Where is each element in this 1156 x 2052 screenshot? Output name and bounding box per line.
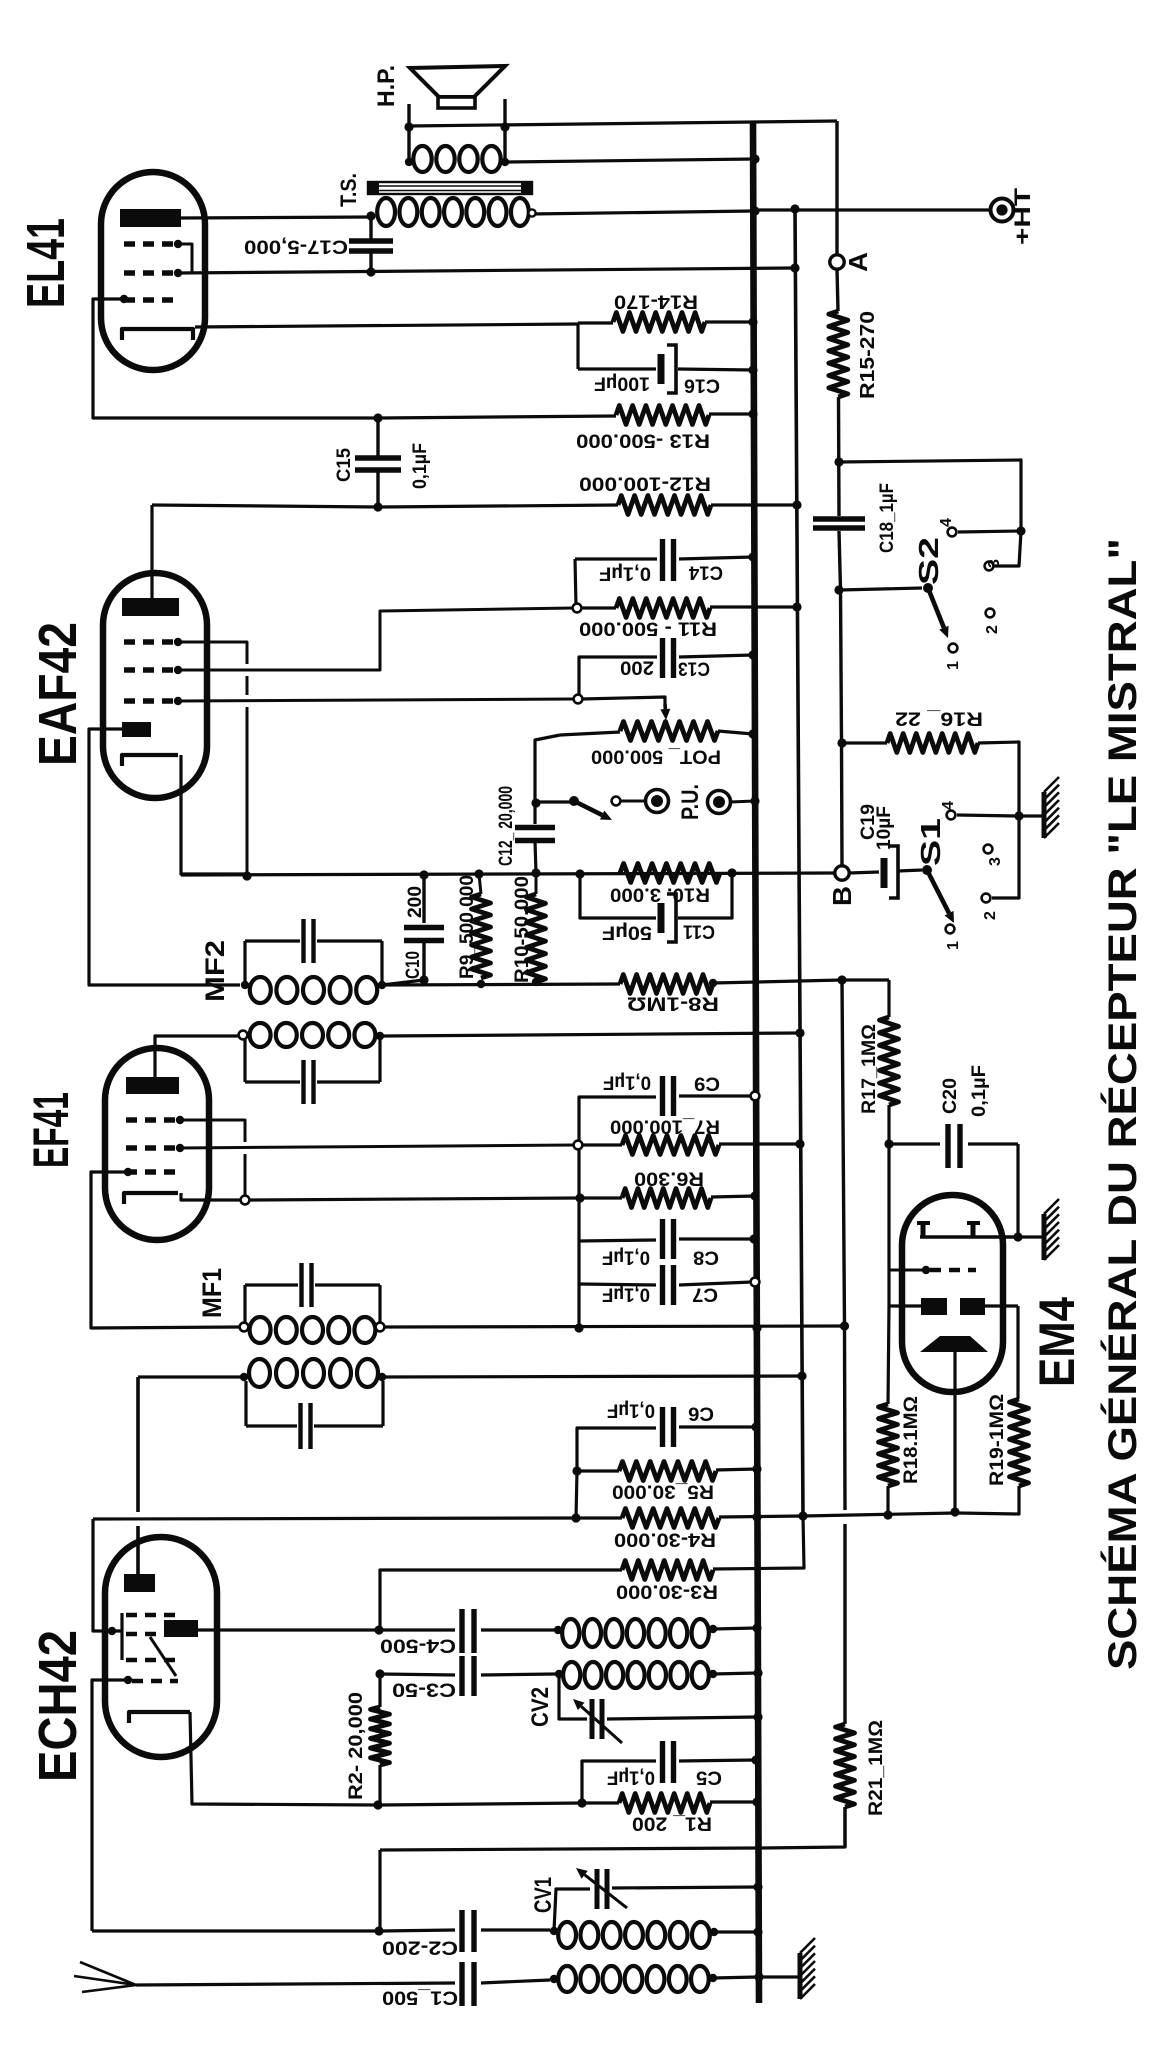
junction C15 bottom (373, 502, 382, 511)
svg-text:0,1µF: 0,1µF (607, 1767, 655, 1788)
svg-text:R6.300: R6.300 (634, 1168, 704, 1189)
potentiometer POT 500.000 (620, 722, 718, 741)
EAF42 grid3 dashes (124, 698, 180, 703)
ECH42 triode anode (164, 1620, 198, 1637)
junction C15 top (373, 413, 382, 422)
EM4 grid dashes (930, 1268, 976, 1273)
ground main (798, 1953, 803, 1999)
contact S2-3 (985, 562, 994, 571)
capacitor C15 (376, 418, 379, 456)
variable capacitor CV1 (554, 1889, 590, 1931)
junction R14 bus (748, 317, 757, 326)
resistor R2 20000 (371, 1707, 390, 1765)
wire EAF42 anode lead up (150, 505, 153, 604)
capacitor C12 (535, 735, 560, 824)
capacitor C8 (579, 1240, 656, 1241)
inductor input coil1 (558, 1922, 576, 1948)
junction MF2 coil right (378, 981, 386, 989)
capacitor C16 electrolytic (578, 367, 656, 370)
ECH42 heptode anode (124, 1574, 155, 1592)
wire ring to pot wiper (582, 697, 665, 704)
junction C12 switch tap (531, 798, 540, 807)
svg-text:+HT: +HT (1010, 187, 1035, 245)
EF41 grid3 dashes (126, 1169, 182, 1174)
junction C7 bus ring (751, 1278, 760, 1287)
wire ECH42 anode lead up (136, 1377, 140, 1512)
wire EL41 g2 to secondary bus (178, 268, 795, 273)
svg-text:4: 4 (940, 801, 957, 810)
wire ECH42 screen tap (93, 1519, 122, 1631)
wire EAF42 cathode down (181, 755, 247, 874)
junction C16 bus (748, 365, 757, 374)
junction coil2 bus (753, 1668, 762, 1677)
svg-text:R14-170: R14-170 (614, 291, 698, 312)
ECH42 grid4 dashes (132, 1679, 178, 1684)
wire EL41 g3 down-right (93, 299, 378, 418)
svg-text:EAF42: EAF42 (28, 622, 88, 766)
svg-text:2: 2 (982, 911, 999, 920)
wire C7 column to MF1 line (577, 1284, 580, 1328)
wire EAF42 g1 down (178, 642, 247, 664)
svg-text:0,1µF: 0,1µF (599, 563, 651, 584)
resistor R17 1M (880, 1017, 899, 1105)
junction R16 left (837, 738, 846, 747)
resistor R12 (618, 496, 711, 515)
capacitor C5 (582, 1761, 656, 1803)
svg-text:4: 4 (938, 518, 955, 527)
svg-text:200: 200 (620, 657, 654, 678)
junction POT bus (748, 729, 757, 738)
wire S2 contacts loop (839, 460, 1021, 531)
resistor R19 1M (1010, 1399, 1029, 1486)
junction C17 bottom (366, 267, 375, 276)
capacitor C13 (583, 655, 657, 658)
capacitor C3 (380, 1674, 455, 1675)
wire T.S. right to +HT (530, 211, 753, 214)
contact S1-2 (982, 894, 991, 903)
svg-text:R4-30.000: R4-30.000 (614, 1529, 716, 1550)
MF2 secondary box (243, 1039, 246, 1082)
switch S1 lever (922, 865, 932, 875)
variable capacitor CV2 (559, 1674, 587, 1719)
wire ground stub S1 (1019, 814, 1042, 817)
svg-text:C8: C8 (693, 1247, 719, 1268)
junction R6 bus (750, 1191, 759, 1200)
svg-text:R2- 20,000: R2- 20,000 (346, 1692, 367, 1800)
junction R7 secondary bus (795, 1139, 804, 1148)
svg-text:C11: C11 (683, 921, 715, 942)
wire ECH42 cathode down (190, 1712, 378, 1805)
contact S2-2 (986, 609, 995, 618)
junction HT bus tap (750, 206, 759, 215)
junction osc coil1 left (554, 1626, 562, 1634)
svg-text:R13 -500.000: R13 -500.000 (576, 430, 710, 451)
resistor R3 (622, 1561, 713, 1580)
wire C17 to line (369, 251, 372, 272)
svg-text:0,1µF: 0,1µF (410, 443, 431, 489)
wire C13 bracket to wiper (579, 657, 583, 695)
wire grid line column (378, 1850, 381, 1931)
junction C8 bus (749, 1234, 758, 1243)
junction R11 left (573, 604, 582, 613)
svg-text:R18.1MΩ: R18.1MΩ (901, 1396, 922, 1484)
wire R3 right corner (713, 1516, 804, 1569)
wire C6 column (576, 1471, 577, 1518)
wire EF41 g1 down (180, 1120, 245, 1142)
junction C4 line (374, 1625, 383, 1634)
svg-text:0,1µF: 0,1µF (603, 1072, 651, 1093)
svg-text:0,1µF: 0,1µF (602, 1284, 650, 1305)
wire EM4 left plate (887, 1270, 890, 1306)
MF1 primary box (245, 1283, 298, 1286)
junction MF1 coil left (240, 1323, 249, 1332)
junction speaker right (500, 122, 509, 131)
capacitor C14 (575, 557, 657, 560)
svg-text:R19-1MΩ: R19-1MΩ (987, 1394, 1008, 1486)
contact S1-1 (946, 925, 955, 934)
svg-text:EF41: EF41 (23, 1092, 79, 1168)
terminal P.U. left jack (646, 790, 669, 813)
junction R5 left (572, 1466, 581, 1475)
junction g1/AVC (242, 871, 251, 880)
tube EL41 envelope (101, 172, 205, 370)
junction MF2 secondary bus (795, 1028, 804, 1037)
capacitor C4 (379, 1628, 455, 1631)
svg-text:SCHÉMA GÉNÉRAL DU RÉCEPTEUR: SCHÉMA GÉNÉRAL DU RÉCEPTEUR "LE MISTRAL" (1100, 538, 1145, 1670)
wire C14 left bracket (575, 559, 576, 606)
junction C10 top (419, 870, 428, 879)
resistor R9 500.000 (472, 894, 491, 978)
junction grid3 ring (574, 695, 583, 704)
wire coil1 to bus (713, 1628, 756, 1629)
wire R21 bottom corner (759, 1807, 845, 1848)
junction C14 bus (748, 552, 757, 561)
wire screen rail (93, 1518, 622, 1519)
svg-text:C2-200: C2-200 (382, 1937, 458, 1958)
capacitor C6 (577, 1428, 656, 1471)
tube ECH42 envelope (105, 1537, 217, 1757)
wire EF41 anode lead (155, 1036, 240, 1079)
svg-text:CV2: CV2 (527, 1687, 554, 1727)
capacitor C17 (349, 238, 393, 243)
junction C9 bus ring (751, 1092, 760, 1101)
EF41 cathode (124, 1193, 178, 1204)
junction C13 bus (748, 650, 757, 659)
junction C2 line column (374, 1926, 383, 1935)
svg-text:C5: C5 (696, 1767, 722, 1788)
junction R9 bottom (477, 980, 485, 988)
EAF42 diode plate (122, 722, 151, 737)
capacitor C1 (459, 1962, 464, 2006)
resistor R1 200 (619, 1794, 710, 1813)
junction C5 bus (751, 1755, 760, 1764)
MF1 secondary box (244, 1381, 247, 1426)
EL41 grid 2 dashes (124, 270, 180, 275)
svg-text:0,1µF: 0,1µF (602, 1247, 650, 1268)
contact S1-3 (984, 845, 993, 854)
wire speaker coil to bus (505, 159, 755, 162)
svg-text:C13: C13 (678, 658, 710, 679)
wire cathode line (378, 1803, 582, 1805)
wire input coil1 to bus (714, 1930, 757, 1933)
wire ECH42 anode to MF1 sec (138, 1375, 244, 1378)
EL41 cathode (122, 329, 193, 340)
resistor R10. 3.000 (620, 864, 720, 883)
svg-text:EL41: EL41 (16, 218, 76, 308)
resistor R7 (622, 1136, 719, 1155)
ECH42 oscillator diagonal (150, 1637, 176, 1676)
svg-text:10µF: 10µF (874, 806, 895, 850)
junction C3 line (375, 1669, 384, 1678)
EL41 anode (120, 209, 181, 227)
node B (835, 866, 849, 880)
tube EF41 envelope (105, 1048, 209, 1240)
wire contact3 S2 (994, 531, 1021, 566)
capacitor MF2 secondary (301, 1060, 305, 1104)
inductor input coil2 (558, 1966, 576, 1992)
svg-text:C20: C20 (940, 1078, 961, 1114)
junction R11 secondary bus (792, 602, 801, 611)
junction R5 bus (752, 1464, 761, 1473)
junction rail secondary bus (798, 1511, 807, 1520)
junction MF1 sec left (240, 1373, 248, 1381)
junction PU bus (750, 796, 759, 805)
svg-text:POT_ 500.000: POT_ 500.000 (591, 746, 721, 767)
capacitor MF1 secondary (298, 1403, 302, 1449)
inductor MF2 primary coil (250, 977, 271, 1003)
svg-text:R15-270: R15-270 (857, 311, 879, 399)
ECH42 cathode (129, 1712, 190, 1723)
resistor R6 (622, 1189, 711, 1208)
wire EF41 cathode lead (181, 1193, 241, 1200)
junction bus top (750, 154, 759, 163)
EF41 anode (126, 1077, 179, 1094)
capacitor C10 (422, 875, 425, 923)
wire column down (577, 1149, 580, 1284)
junction input coil1 right (710, 1928, 718, 1936)
junction C12/R10 top (531, 868, 540, 877)
wire MF2 sec to secondary bus (384, 1033, 800, 1036)
junction R1 bus (752, 1797, 761, 1806)
ground S1 (1042, 792, 1047, 838)
resistor R10-50.000 (527, 894, 546, 982)
inductor speaker voice coil / T.S. secondary (413, 146, 431, 172)
wire EM4 right plate (985, 1304, 1018, 1307)
junction MF1 sec right (378, 1373, 386, 1381)
wire EL41 cathode to R14 (195, 324, 578, 327)
svg-text:1: 1 (945, 941, 962, 950)
svg-text:100µF: 100µF (594, 373, 650, 394)
ECH42 grid3 dashes (126, 1658, 178, 1663)
resistor R18 1M (879, 1404, 898, 1486)
wire contact4 S2 (958, 531, 1021, 532)
svg-text:C6: C6 (688, 1403, 714, 1424)
wire contact to jack (620, 800, 646, 803)
wire R8 to EM4 branch (713, 980, 842, 983)
EM4 target electrode (920, 1235, 1018, 1239)
svg-text:0,1µF: 0,1µF (969, 1065, 990, 1117)
junction rail C6 column (571, 1513, 580, 1522)
junction MF1 sec secondary bus (797, 1371, 806, 1380)
wire R14 left bracket (576, 324, 579, 369)
junction speaker left (404, 122, 413, 131)
junction coil2 bus bottom (754, 1972, 763, 1981)
wire EL41 g1 jumper (178, 244, 192, 273)
svg-text:0,1µF: 0,1µF (607, 1400, 655, 1421)
resistor R15 (829, 311, 848, 397)
junction T.S. primary right end (528, 209, 535, 216)
capacitor C19 electrolytic (849, 872, 879, 873)
junction coil left (405, 158, 413, 166)
resistor R8-1M (620, 975, 713, 994)
EL41 grid 1 dashes (124, 241, 180, 246)
svg-text:C18_1µF: C18_1µF (877, 483, 898, 553)
capacitor C11 electrolytic (580, 874, 656, 918)
svg-text:C1_500: C1_500 (382, 1987, 458, 2008)
EF41 grid1 dashes (126, 1117, 182, 1122)
wire EAF42 g3 to pot wiper (178, 699, 573, 701)
svg-text:R16_ 22: R16_ 22 (895, 708, 983, 729)
wire rail to EM4 resistors (803, 1513, 955, 1516)
junction MF1 line EM4 branch (840, 1321, 849, 1330)
svg-text:C10: C10 (403, 951, 424, 979)
capacitor C7 (579, 1284, 656, 1285)
resistor R5 (619, 1462, 716, 1481)
wire EM4 grid lead (887, 1144, 890, 1270)
svg-text:R1_ 200: R1_ 200 (632, 1813, 712, 1834)
node A (830, 255, 844, 269)
wire grid line to bus (380, 1848, 756, 1850)
junction S2 loop (1016, 526, 1025, 535)
resistor R14 (613, 313, 705, 332)
junction coil bus (753, 1927, 762, 1936)
wire R19 bottom corner (958, 1486, 1019, 1514)
junction input coil2 right (709, 1974, 717, 1982)
junction EM4 branch top (837, 975, 846, 984)
pot wiper arrow (663, 704, 667, 709)
resistor R21 1M (836, 1724, 855, 1807)
svg-text:C4-500: C4-500 (380, 1635, 456, 1656)
PU switch contact (612, 797, 621, 806)
junction input coil2 left (550, 1975, 558, 1983)
EM4 cathode screen (920, 1336, 988, 1352)
wire bus to +HT terminal (759, 208, 990, 211)
svg-text:R5_30.000: R5_30.000 (612, 1481, 714, 1502)
junction R10 left (575, 869, 584, 878)
svg-text:200: 200 (405, 886, 426, 918)
junction C9/R7 ring (574, 1141, 583, 1150)
junction osc coil2 left (555, 1670, 563, 1678)
switch S2 lever (923, 583, 933, 593)
junction R15 bottom (834, 457, 843, 466)
contact S2-4 (948, 528, 957, 537)
contact S1-4 (947, 811, 956, 820)
svg-text:C14: C14 (689, 562, 723, 583)
junction rail bus (752, 1512, 761, 1521)
MF2 primary box (245, 939, 300, 942)
resistor R16 (887, 734, 978, 753)
junction screen grid tap (108, 1627, 116, 1635)
tube EM4 envelope (902, 1195, 1003, 1392)
resistor R13 (616, 406, 709, 425)
ECH42 grid2 dashes (126, 1632, 160, 1637)
junction anode/T.S. (366, 211, 375, 220)
wire S2 pivot (840, 588, 922, 590)
wire ECH42 g4 to C2 line (92, 1680, 128, 1931)
svg-text:C12_ 20,000: C12_ 20,000 (496, 786, 517, 866)
svg-text:A: A (843, 252, 873, 272)
junction C10 bottom (419, 975, 428, 984)
EM4 deflection plates (921, 1298, 947, 1315)
wire MF1 to EM4 line (384, 1326, 845, 1327)
svg-text:S1: S1 (915, 818, 946, 866)
svg-text:C17-5,000: C17-5,000 (244, 236, 348, 257)
svg-text:R3-30.000: R3-30.000 (616, 1581, 718, 1602)
junction MF2 coil left (241, 981, 249, 989)
svg-text:B: B (827, 886, 857, 906)
svg-text:ECH42: ECH42 (28, 1630, 88, 1782)
junction C5 column (577, 1798, 586, 1807)
junction R8 right (709, 979, 717, 987)
wire R3 left corner (380, 1570, 622, 1630)
junction g2 secondary bus (790, 263, 799, 272)
resistor R4 (622, 1509, 719, 1528)
wire anode line EAF42 to R12 (152, 505, 618, 507)
wire contact4 S1 (957, 815, 1019, 816)
junction EM4 cathode rail (950, 1507, 959, 1516)
wire EL41 anode lead (181, 217, 371, 218)
svg-text:T.S.: T.S. (336, 173, 361, 207)
junction MF2 sec left (239, 1031, 248, 1040)
wire right vertical A-B branch (835, 121, 838, 255)
inductor osc coil1 (562, 1619, 579, 1647)
wire EF41 g3 to MF1 (91, 1172, 240, 1328)
svg-text:C9: C9 (694, 1073, 720, 1094)
svg-text:MF2: MF2 (200, 940, 230, 1002)
antenna (80, 1962, 136, 1985)
ground EM4 (1042, 1214, 1047, 1260)
svg-text:R9_500.000: R9_500.000 (457, 875, 478, 979)
EAF42 grid2 dashes (124, 667, 180, 672)
capacitor C2 (379, 1930, 455, 1931)
transformer T.S. core (368, 182, 532, 194)
svg-text:R17_1MΩ: R17_1MΩ (859, 1024, 880, 1114)
wire antenna line (136, 1983, 455, 1985)
wire speaker top to A branch (409, 121, 837, 126)
svg-text:C15: C15 (334, 448, 355, 482)
junction R10-50.000 bottom (532, 978, 540, 986)
switch PU lever (569, 796, 579, 806)
junction CV1 bus (753, 1882, 762, 1891)
svg-text:2: 2 (984, 625, 1001, 634)
junction R18 rail (883, 1510, 892, 1519)
svg-text:R12-100.000: R12-100.000 (579, 473, 711, 494)
svg-text:H.P.: H.P. (373, 65, 400, 107)
svg-text:R10. 3.000: R10. 3.000 (610, 884, 710, 905)
ECH42 grid1 dashes (126, 1613, 178, 1618)
wire R17 corner (842, 978, 889, 981)
junction C6 bus (751, 1422, 760, 1431)
junction coil1 bus (752, 1623, 761, 1632)
junction osc coil1 right (709, 1625, 717, 1633)
wire EM4 ground stub (1018, 1235, 1042, 1238)
svg-text:R21_1MΩ: R21_1MΩ (866, 1720, 887, 1816)
svg-text:50µF: 50µF (602, 922, 652, 943)
wire AVC return line (382, 984, 620, 985)
terminal +HT (991, 199, 1014, 222)
wire EF41 g2 to C9/R7 (180, 1145, 574, 1148)
resistor R11 (616, 599, 710, 618)
